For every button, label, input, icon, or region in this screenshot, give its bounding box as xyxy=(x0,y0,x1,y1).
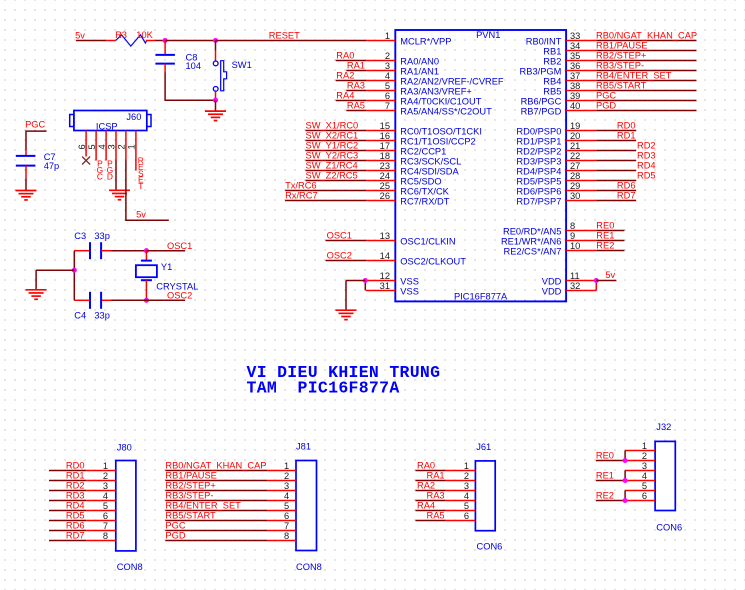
wire J60 pin 2 to 5v xyxy=(126,161,169,221)
svg-text:38: 38 xyxy=(570,81,580,91)
svg-text:J81: J81 xyxy=(296,442,311,452)
ground below SW1 xyxy=(205,111,226,120)
connector J81 body xyxy=(296,461,317,551)
U1 pin 4 RA2/AN2/VREF-/CVREF row xyxy=(336,71,504,87)
wire R3 to node A xyxy=(156,40,166,42)
junction node VDD xyxy=(594,278,599,283)
junction node VSS xyxy=(363,278,368,283)
svg-text:PGC: PGC xyxy=(97,158,104,181)
svg-text:RE1: RE1 xyxy=(596,231,614,241)
svg-text:4: 4 xyxy=(385,71,390,81)
ground below VSS xyxy=(336,310,357,319)
svg-text:26: 26 xyxy=(380,191,390,201)
junction node D xyxy=(72,268,77,273)
wire node A to node B xyxy=(165,40,215,42)
svg-text:OSC1: OSC1 xyxy=(327,231,352,241)
U1 pin 11 VDD row xyxy=(542,271,597,287)
svg-text:1: 1 xyxy=(385,31,390,41)
svg-text:RD6: RD6 xyxy=(66,521,85,531)
J60 pin 6 stub xyxy=(85,131,87,157)
svg-text:RD3: RD3 xyxy=(637,151,656,161)
J80 pin 3 RD2 row xyxy=(49,481,116,491)
svg-text:RE0/RD*/AN5: RE0/RD*/AN5 xyxy=(503,227,561,237)
wire Y1 top lead xyxy=(145,251,147,261)
svg-text:SW_Y1/RC2: SW_Y1/RC2 xyxy=(306,141,359,151)
U1 pin 27 RD4/PSP4 row xyxy=(516,161,655,177)
svg-text:40: 40 xyxy=(570,101,580,111)
svg-text:RB2: RB2 xyxy=(543,57,561,67)
svg-text:RB0/NGAT_KHAN_CAP: RB0/NGAT_KHAN_CAP xyxy=(596,31,697,41)
svg-text:15: 15 xyxy=(380,121,390,131)
U1 pin 40 RB7/PGD row xyxy=(521,101,697,117)
U1 pin 39 RB6/PGC row xyxy=(521,91,697,107)
svg-text:RB4/ENTER_SET: RB4/ENTER_SET xyxy=(596,71,672,81)
wire 5v to R3 xyxy=(76,40,106,42)
svg-text:3: 3 xyxy=(385,61,390,71)
U1 pin 10 RE2/CS*/AN7 row xyxy=(504,241,625,257)
U1 pin 30 RD7/PSP7 row xyxy=(516,191,636,207)
svg-text:RC2/CCP1: RC2/CCP1 xyxy=(400,147,446,157)
svg-text:PGD: PGD xyxy=(107,158,114,181)
wire C8 to ground node xyxy=(165,64,215,101)
svg-text:RC0/T1OSO/T1CKI: RC0/T1OSO/T1CKI xyxy=(400,127,482,137)
svg-text:RA1: RA1 xyxy=(347,61,365,71)
svg-text:VSS: VSS xyxy=(400,277,419,287)
junction node OSC2 xyxy=(144,298,149,303)
svg-text:20: 20 xyxy=(570,131,580,141)
J80 pin 2 RD1 row xyxy=(49,471,116,481)
J81 pin 5 RB4/ENTER_SET row xyxy=(165,501,296,511)
svg-text:RD5: RD5 xyxy=(637,171,656,181)
J32 pin 1 stub xyxy=(625,450,655,452)
svg-text:RB1/PAUSE: RB1/PAUSE xyxy=(596,41,648,51)
svg-text:OSC1/CLKIN: OSC1/CLKIN xyxy=(400,237,455,247)
svg-text:30: 30 xyxy=(570,191,580,201)
svg-text:6: 6 xyxy=(284,511,289,521)
J61 pin 5 RA4 row xyxy=(416,501,476,511)
svg-text:OSC1: OSC1 xyxy=(167,241,192,251)
junction node A xyxy=(163,38,168,43)
svg-text:RC5/SDO: RC5/SDO xyxy=(400,177,441,187)
U1 pin 19 RD0/PSP0 row xyxy=(516,121,636,137)
svg-text:10: 10 xyxy=(570,241,580,251)
J60 pin 3 stub xyxy=(115,131,117,161)
wire VDD to 5v xyxy=(596,280,616,282)
svg-text:RB5/START: RB5/START xyxy=(165,511,216,521)
svg-text:Y1: Y1 xyxy=(161,262,172,272)
connector J80 body xyxy=(116,461,136,551)
svg-text:4: 4 xyxy=(464,491,469,501)
svg-text:2: 2 xyxy=(642,451,647,461)
U1 pin 16 RC1/T1OSI/CCP2 row xyxy=(306,131,476,147)
svg-text:2: 2 xyxy=(117,144,127,149)
svg-text:RA1/AN1: RA1/AN1 xyxy=(400,67,439,77)
J80 pin 7 RD6 row xyxy=(49,521,116,531)
junction node OSC1 xyxy=(144,248,149,253)
svg-text:39: 39 xyxy=(570,91,580,101)
svg-text:5v: 5v xyxy=(605,270,615,280)
svg-text:PVN1: PVN1 xyxy=(476,30,500,40)
svg-text:RA2: RA2 xyxy=(336,71,354,81)
svg-text:OSC2: OSC2 xyxy=(167,291,192,301)
svg-text:RA0/AN0: RA0/AN0 xyxy=(400,57,439,67)
svg-text:CON8: CON8 xyxy=(117,562,143,572)
U1 pin 15 RC0/T1OSO/T1CKI row xyxy=(306,121,482,137)
svg-text:RB1: RB1 xyxy=(543,47,561,57)
svg-text:RD7/PSP7: RD7/PSP7 xyxy=(516,197,561,207)
svg-text:6: 6 xyxy=(385,91,390,101)
J81 pin 8 PGD row xyxy=(165,531,296,541)
svg-text:RD4: RD4 xyxy=(66,501,85,511)
svg-text:6: 6 xyxy=(103,511,108,521)
svg-text:C3: C3 xyxy=(74,231,86,241)
svg-text:27: 27 xyxy=(570,161,580,171)
wire SW1 to ground node C xyxy=(215,91,217,100)
svg-text:32: 32 xyxy=(570,281,580,291)
svg-text:1: 1 xyxy=(103,461,108,471)
U1 pin 14 OSC2/CLKOUT row xyxy=(326,251,467,267)
U1 pin 31 VSS row xyxy=(366,281,419,297)
connector J60 body xyxy=(70,111,151,131)
svg-text:6: 6 xyxy=(464,511,469,521)
wire node A to C8 xyxy=(164,41,166,55)
svg-text:33p: 33p xyxy=(94,311,110,321)
J80 pin 4 RD3 row xyxy=(49,491,116,501)
svg-text:21: 21 xyxy=(570,141,580,151)
svg-text:RB1/PAUSE: RB1/PAUSE xyxy=(165,471,217,481)
J32 pin 2 stub xyxy=(625,460,655,462)
svg-text:PGD: PGD xyxy=(165,531,185,541)
U1 pin 23 RC4/SDI/SDA row xyxy=(306,161,460,177)
svg-text:RB7/PGD: RB7/PGD xyxy=(521,107,562,117)
svg-text:47p: 47p xyxy=(44,161,60,171)
svg-text:34: 34 xyxy=(570,41,580,51)
svg-text:7: 7 xyxy=(385,101,390,111)
capacitor C3 xyxy=(90,242,101,259)
svg-text:3: 3 xyxy=(642,461,647,471)
ground for crystal xyxy=(26,290,47,299)
J80 pin 5 RD4 row xyxy=(49,501,116,511)
wire RE1 to J32 xyxy=(596,471,625,481)
svg-text:RA0: RA0 xyxy=(336,51,354,61)
svg-text:RD7: RD7 xyxy=(617,191,636,201)
svg-text:2: 2 xyxy=(103,471,108,481)
svg-text:RD3: RD3 xyxy=(66,491,85,501)
J32 pin 4 stub xyxy=(625,480,655,482)
svg-text:RB5/START: RB5/START xyxy=(596,81,647,91)
svg-text:RB3/STEP-: RB3/STEP- xyxy=(596,61,644,71)
wire VSS link pins 12-31 xyxy=(364,281,366,291)
U1 pin 35 RB2 row xyxy=(543,51,696,67)
svg-text:RC6/TX/CK: RC6/TX/CK xyxy=(400,187,449,197)
svg-text:19: 19 xyxy=(570,121,580,131)
svg-text:RA0: RA0 xyxy=(417,461,435,471)
svg-text:RD2: RD2 xyxy=(637,141,656,151)
J60 pin 4 stub xyxy=(105,131,107,161)
capacitor C7 xyxy=(16,156,36,166)
svg-text:5v: 5v xyxy=(75,30,85,40)
svg-text:RA2: RA2 xyxy=(417,481,435,491)
svg-text:VSS: VSS xyxy=(400,287,419,297)
svg-text:18: 18 xyxy=(380,151,390,161)
wire RE0 to J32 xyxy=(596,451,625,461)
U1 pin 34 RB1 row xyxy=(543,41,696,57)
U1 pin 20 RD1/PSP1 row xyxy=(516,131,636,147)
svg-text:RD2/PSP2: RD2/PSP2 xyxy=(516,147,561,157)
svg-text:28: 28 xyxy=(570,171,580,181)
capacitor C8 xyxy=(155,55,175,64)
svg-text:RD2: RD2 xyxy=(66,481,85,491)
svg-text:J32: J32 xyxy=(656,422,671,432)
svg-text:5: 5 xyxy=(87,144,97,149)
J61 pin 6 RA5 row xyxy=(416,511,476,521)
svg-text:3: 3 xyxy=(103,481,108,491)
svg-text:RB4/ENTER_SET: RB4/ENTER_SET xyxy=(165,501,241,511)
svg-text:1: 1 xyxy=(127,144,137,149)
svg-text:RB2/STEP+: RB2/STEP+ xyxy=(165,481,215,491)
U1 pin 29 RD6/PSP6 row xyxy=(516,181,636,197)
svg-text:RA3/AN3/VREF+: RA3/AN3/VREF+ xyxy=(400,87,472,97)
svg-text:RD6/PSP6: RD6/PSP6 xyxy=(516,187,561,197)
U1 pin 37 RB4 row xyxy=(543,71,696,87)
svg-text:RB0/NGAT_KHAN_CAP: RB0/NGAT_KHAN_CAP xyxy=(165,461,266,471)
crystal Y1 xyxy=(136,261,157,281)
U1 pin 22 RD3/PSP3 row xyxy=(516,151,655,167)
svg-text:OSC2: OSC2 xyxy=(327,251,352,261)
wire node B to SW1 xyxy=(215,41,217,61)
J60 pin 1 stub xyxy=(135,131,137,171)
connector J61 body xyxy=(475,461,495,531)
svg-text:13: 13 xyxy=(380,231,390,241)
svg-text:5: 5 xyxy=(284,501,289,511)
svg-text:RB3/STEP-: RB3/STEP- xyxy=(165,491,213,501)
U1 pin 3 RA1/AN1 row xyxy=(346,61,439,77)
svg-text:7: 7 xyxy=(103,521,108,531)
svg-text:RB5: RB5 xyxy=(543,87,561,97)
svg-text:PGC: PGC xyxy=(165,521,185,531)
svg-text:RE1/WR*/AN6: RE1/WR*/AN6 xyxy=(501,237,561,247)
junction node B xyxy=(213,38,218,43)
J32 pin 3 stub xyxy=(625,470,655,472)
svg-text:RESET: RESET xyxy=(269,30,300,40)
U1 pin 7 RA5/AN4/SS*/C2OUT row xyxy=(346,101,492,117)
junction node RE0 xyxy=(623,458,628,463)
svg-text:RD7: RD7 xyxy=(66,531,85,541)
svg-text:RA5/AN4/SS*/C2OUT: RA5/AN4/SS*/C2OUT xyxy=(400,107,492,117)
svg-text:5: 5 xyxy=(642,481,647,491)
J81 pin 3 RB2/STEP+ row xyxy=(165,481,296,491)
svg-text:6: 6 xyxy=(642,491,647,501)
svg-text:33: 33 xyxy=(570,31,580,41)
svg-text:SW1: SW1 xyxy=(232,60,252,70)
ground below C7 xyxy=(16,191,37,200)
J61 pin 1 RA0 row xyxy=(416,461,476,471)
wire OSC1 stub xyxy=(146,250,185,252)
J61 pin 4 RA3 row xyxy=(416,491,476,501)
svg-text:J60: J60 xyxy=(126,112,141,122)
wire C7 to ground xyxy=(25,166,27,191)
connector J32 body xyxy=(655,441,675,510)
U1 pin 12 VSS row xyxy=(366,271,419,287)
svg-text:RA3: RA3 xyxy=(347,81,365,91)
J81 pin 1 RB0/NGAT_KHAN_CAP row xyxy=(165,461,296,471)
svg-text:8: 8 xyxy=(284,531,289,541)
svg-text:RC7/RX/DT: RC7/RX/DT xyxy=(400,197,449,207)
U1 pin 1 MCLR*/VPP row xyxy=(366,31,451,47)
svg-text:CON6: CON6 xyxy=(477,541,503,551)
svg-text:MCLR*/VPP: MCLR*/VPP xyxy=(400,37,451,47)
svg-text:PIC16F877A: PIC16F877A xyxy=(454,292,508,302)
svg-text:RA4: RA4 xyxy=(417,501,435,511)
svg-text:RD3/PSP3: RD3/PSP3 xyxy=(516,157,561,167)
junction node RE2 xyxy=(623,498,628,503)
svg-text:RE0: RE0 xyxy=(596,450,614,460)
svg-text:5: 5 xyxy=(385,81,390,91)
svg-text:104: 104 xyxy=(186,61,202,71)
svg-text:RE2: RE2 xyxy=(596,241,614,251)
U1 pin 25 RC6/TX/CK row xyxy=(285,181,450,197)
svg-text:4: 4 xyxy=(97,144,107,149)
svg-text:RD5/PSP5: RD5/PSP5 xyxy=(516,177,561,187)
U1 pin 21 RD2/PSP2 row xyxy=(516,141,655,157)
J80 pin 1 RD0 row xyxy=(49,461,116,471)
svg-text:1: 1 xyxy=(642,441,647,451)
ground below J60 xyxy=(109,190,130,199)
svg-text:2: 2 xyxy=(385,51,390,61)
svg-text:9: 9 xyxy=(570,231,575,241)
svg-text:23: 23 xyxy=(380,161,390,171)
wire J60 pin 3 to ground xyxy=(115,161,117,191)
svg-text:5: 5 xyxy=(103,501,108,511)
svg-text:SW_Z1/RC4: SW_Z1/RC4 xyxy=(306,161,358,171)
U1 pin 26 RC7/RX/DT row xyxy=(285,191,450,207)
svg-text:RA4/T0CKI/C1OUT: RA4/T0CKI/C1OUT xyxy=(400,97,481,107)
svg-text:Rx/RC7: Rx/RC7 xyxy=(285,191,318,201)
wire C3 left lead xyxy=(74,250,90,252)
svg-text:36: 36 xyxy=(570,61,580,71)
junction node RE1 xyxy=(623,478,628,483)
svg-text:3: 3 xyxy=(284,481,289,491)
wire node C stem xyxy=(215,100,217,111)
svg-text:12: 12 xyxy=(380,271,390,281)
svg-text:3: 3 xyxy=(107,144,117,149)
svg-text:RD5: RD5 xyxy=(66,511,85,521)
svg-text:PGD: PGD xyxy=(596,101,616,111)
svg-text:29: 29 xyxy=(570,181,580,191)
svg-text:RD6: RD6 xyxy=(617,181,636,191)
svg-text:PGC: PGC xyxy=(25,120,45,130)
svg-text:24: 24 xyxy=(380,171,390,181)
wire VSS to ground xyxy=(346,281,365,311)
svg-text:4: 4 xyxy=(642,471,647,481)
svg-text:35: 35 xyxy=(570,51,580,61)
svg-text:8: 8 xyxy=(103,531,108,541)
U1 pin 2 RA0/AN0 row xyxy=(336,51,439,67)
svg-text:RA5: RA5 xyxy=(427,511,445,521)
svg-text:RA4: RA4 xyxy=(336,91,354,101)
svg-text:RB6/PGC: RB6/PGC xyxy=(521,97,562,107)
svg-text:RB0/INT: RB0/INT xyxy=(526,37,562,47)
svg-text:4: 4 xyxy=(284,491,289,501)
svg-text:RD1/PSP1: RD1/PSP1 xyxy=(516,137,561,147)
U1 pin 5 RA3/AN3/VREF+ row xyxy=(346,81,472,97)
J32 pin 6 stub xyxy=(625,500,655,502)
svg-text:25: 25 xyxy=(380,181,390,191)
U1 pin 33 RB0/INT row xyxy=(526,31,697,47)
capacitor C4 xyxy=(90,292,101,309)
svg-text:RD0/PSP0: RD0/PSP0 xyxy=(516,127,561,137)
J60 pin 5 stub xyxy=(95,131,97,161)
J81 pin 4 RB3/STEP- row xyxy=(165,491,296,501)
svg-text:17: 17 xyxy=(380,141,390,151)
J60 pin 2 stub xyxy=(125,131,127,161)
J81 pin 2 RB1/PAUSE row xyxy=(165,471,296,481)
U1 pin 18 RC3/SCK/SCL row xyxy=(306,151,462,167)
svg-text:Tx/RC6: Tx/RC6 xyxy=(285,181,317,191)
U1 pin 28 RD5/PSP5 row xyxy=(516,171,655,187)
resistor R3 xyxy=(106,35,155,46)
svg-text:33p: 33p xyxy=(94,231,110,241)
svg-text:OSC2/CLKOUT: OSC2/CLKOUT xyxy=(400,257,466,267)
svg-text:RD1: RD1 xyxy=(617,131,636,141)
wire Y1 bottom lead xyxy=(145,280,147,300)
svg-text:RD0: RD0 xyxy=(66,461,85,471)
svg-text:RB3/PGM: RB3/PGM xyxy=(520,67,562,77)
svg-text:6: 6 xyxy=(77,144,87,149)
J81 pin 6 RB5/START row xyxy=(165,511,296,521)
wire node D to ground xyxy=(36,270,74,290)
svg-text:C4: C4 xyxy=(74,311,86,321)
svg-text:8: 8 xyxy=(570,221,575,231)
svg-text:J80: J80 xyxy=(117,443,132,453)
wire C4 to OSC2 stub xyxy=(101,299,185,301)
U1 pin 24 RC5/SDO row xyxy=(306,171,442,187)
svg-text:2: 2 xyxy=(464,471,469,481)
svg-text:CON6: CON6 xyxy=(656,523,682,533)
J61 pin 3 RA2 row xyxy=(416,481,476,491)
svg-text:14: 14 xyxy=(380,251,390,261)
U1 pin 9 RE1/WR*/AN6 row xyxy=(501,231,624,247)
svg-text:1: 1 xyxy=(464,461,469,471)
J80 pin 6 RD5 row xyxy=(49,511,116,521)
svg-text:2: 2 xyxy=(284,471,289,481)
svg-text:RD1: RD1 xyxy=(66,471,85,481)
wire PGC stub to C7 xyxy=(26,131,47,156)
svg-text:SW_X1/RC0: SW_X1/RC0 xyxy=(306,121,359,131)
U1 pin 36 RB3/PGM row xyxy=(520,61,697,77)
svg-text:CON8: CON8 xyxy=(296,562,322,572)
svg-text:R3: R3 xyxy=(115,30,127,40)
svg-text:SW_Z2/RC5: SW_Z2/RC5 xyxy=(306,171,358,181)
svg-text:VDD: VDD xyxy=(542,277,562,287)
U1 pin 17 RC2/CCP1 row xyxy=(306,141,447,157)
svg-text:SW_Y2/RC3: SW_Y2/RC3 xyxy=(306,151,359,161)
U1 pin 6 RA4/T0CKI/C1OUT row xyxy=(336,91,482,107)
svg-text:J61: J61 xyxy=(476,442,491,452)
wire RE2 to J32 xyxy=(596,491,625,501)
wire RESET net to U1 pin 1 xyxy=(216,40,367,42)
svg-text:RA2/AN2/VREF-/CVREF: RA2/AN2/VREF-/CVREF xyxy=(400,77,504,87)
svg-text:RD4: RD4 xyxy=(637,161,656,171)
svg-text:RA3: RA3 xyxy=(427,491,445,501)
U1 pin 8 RE0/RD*/AN5 row xyxy=(503,221,624,237)
IC PVN1 PIC16F877A body xyxy=(395,30,566,301)
wire C3 to node OSC1 xyxy=(101,250,146,252)
svg-text:RB4: RB4 xyxy=(543,77,561,87)
svg-text:RA5: RA5 xyxy=(347,101,365,111)
svg-text:3: 3 xyxy=(464,481,469,491)
svg-text:22: 22 xyxy=(570,151,580,161)
